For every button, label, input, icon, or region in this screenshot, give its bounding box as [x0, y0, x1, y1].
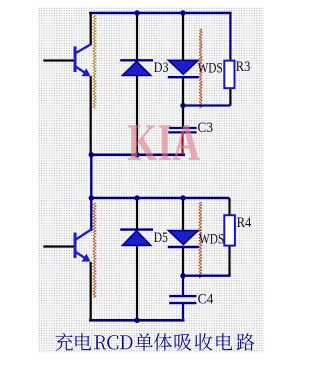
svg-text:R4: R4: [237, 215, 252, 231]
svg-text:D5: D5: [154, 230, 168, 246]
svg-text:D3: D3: [154, 60, 169, 76]
svg-text:WDS: WDS: [199, 232, 224, 248]
svg-text:C4: C4: [198, 291, 214, 307]
svg-text:WDS: WDS: [198, 60, 223, 76]
svg-text:R3: R3: [236, 59, 251, 75]
svg-text:KIA: KIA: [127, 114, 200, 172]
